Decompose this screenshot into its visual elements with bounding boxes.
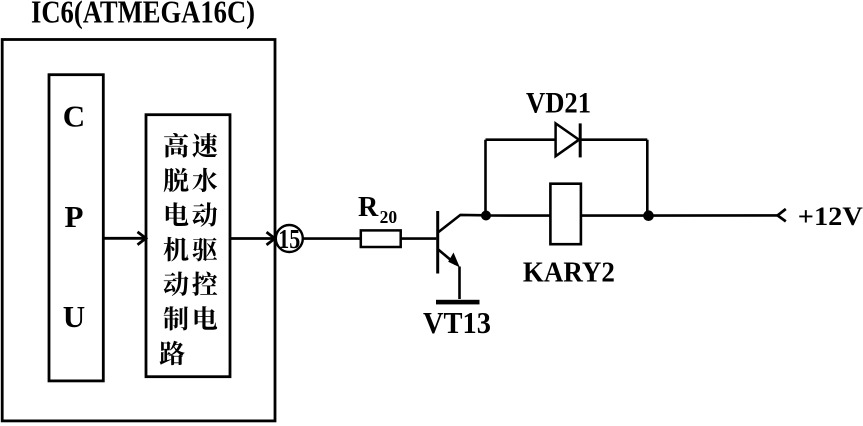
pin 15 circle [276,225,303,252]
junction dot left [481,211,491,221]
label R20 [358,192,397,227]
svg-text:KARY2: KARY2 [523,257,615,289]
driver circuit box [146,115,230,377]
wire pin15 to R20 [303,237,361,240]
transistor VT13 [438,211,486,299]
diode VD21 [556,123,581,157]
wire to +12V terminal [649,214,778,217]
ground [436,300,480,305]
driver box label 高速脱水电动机驱动控制电路 [160,133,218,365]
svg-text:C: C [63,99,85,134]
IC6 outer box [2,40,275,421]
wire R20 to base [401,237,437,240]
wire collector junction up [484,140,487,216]
svg-text:15: 15 [278,224,300,254]
svg-text:VD21: VD21 [526,87,591,120]
junction dot right [643,210,654,221]
+12V terminal chevron [778,209,786,221]
svg-text:IC6(ATMEGA16C): IC6(ATMEGA16C) [31,0,255,30]
resistor R20 body [361,230,401,247]
svg-text:P: P [65,199,84,234]
main wire junction to junction [486,214,648,217]
arrow CPU to driver box [103,232,146,245]
top branch wire [486,138,648,141]
right branch wire down [646,140,649,216]
relay KARY2 coil [550,184,581,245]
svg-text:20: 20 [380,207,398,227]
CPU box [49,75,103,381]
wire driver box to pin 15 with arrowhead [230,232,275,245]
svg-text:U: U [63,299,85,334]
svg-text:R: R [358,192,379,223]
svg-text:VT13: VT13 [423,305,491,340]
svg-text:+12V: +12V [798,202,863,231]
